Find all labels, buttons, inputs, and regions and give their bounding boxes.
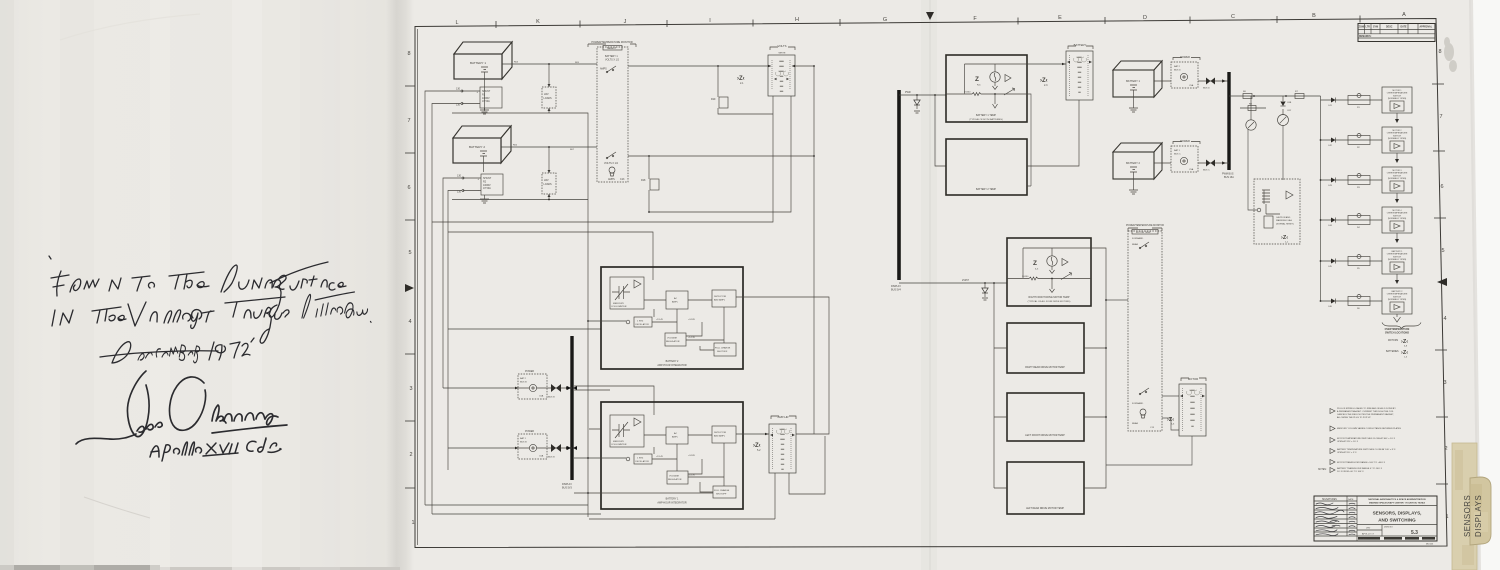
svg-text:SYM: SYM (1373, 27, 1378, 29)
svg-text:M67-006: M67-006 (1426, 544, 1433, 546)
right front drive motor temp block (1007, 238, 1091, 306)
svg-text:BATTERY 1: BATTERY 1 (666, 498, 679, 501)
svg-text:2: 2 (409, 452, 412, 458)
svg-text:SENSORS, DISPLAYS,: SENSORS, DISPLAYS, (1373, 511, 1422, 516)
signature line: Apollo XVII Cdr (150, 438, 281, 461)
svg-text:LOADS: LOADS (544, 183, 553, 186)
svg-text:OVERTEMPERATURE: OVERTEMPERATURE (1387, 92, 1408, 95)
svg-text:BUS B: BUS B (520, 382, 527, 384)
inscription line 3: DECEMBER 1972 (100, 338, 254, 363)
svg-text:5: 5 (408, 250, 411, 256)
wire battery B4 to CB (1154, 160, 1229, 172)
1 khz oscillator 1 (626, 457, 630, 461)
display bus 5V3 (562, 336, 573, 489)
battery B4 (3D box) (1113, 143, 1162, 179)
svg-text:REAR: REAR (1132, 243, 1138, 246)
wire shunt R2 to terminals (463, 178, 481, 191)
svg-text:L: L (455, 20, 458, 26)
svg-text:POWER/TEMPERATURE MONITOR: POWER/TEMPERATURE MONITOR (591, 41, 632, 44)
svg-text:(TYPICAL OF BOTH BATTERIES): (TYPICAL OF BOTH BATTERIES) (969, 118, 1003, 121)
svg-text:BATTERY 2: BATTERY 2 (1392, 290, 1404, 293)
impedance Z2-1 (737, 76, 745, 85)
svg-text:REMARKS:: REMARKS: (1359, 35, 1372, 38)
node 130 terminals B1 (456, 88, 463, 107)
svg-text:AMP-HOUR INTEGRATOR: AMP-HOUR INTEGRATOR (657, 364, 686, 367)
detector and ampl 2 (712, 290, 736, 307)
battery 1 overtemperature switch S5 (1320, 248, 1412, 284)
battery temp meter M3 (1066, 43, 1093, 100)
svg-text:MOTOR TEMP: MOTOR TEMP (1136, 232, 1151, 234)
svg-text:7: 7 (407, 118, 410, 124)
svg-text:C5A: C5A (1189, 168, 1194, 171)
overtemp distribution line (1320, 96, 1322, 301)
wire pwm bus to lamp branch (1229, 95, 1321, 97)
svg-text:+19.4V: +19.4V (656, 456, 664, 458)
svg-text:2: 2 (1444, 446, 1447, 452)
svg-text:BATTERY TEMPERATURE SWITCHES C: BATTERY TEMPERATURE SWITCHES CLOSE AT 14… (1337, 448, 1396, 451)
sheet border frame (415, 19, 1447, 548)
battery 2 amp-hour integrator U2 (601, 267, 743, 369)
battery 2 overtemperature switch S6 (1320, 288, 1412, 322)
power switch CB bat2 (511, 370, 572, 399)
display bus 5V4 (891, 90, 902, 291)
svg-text:VOLTAGE: VOLTAGE (667, 337, 678, 340)
note flag 2 (1330, 426, 1402, 431)
svg-text:COULOMETER: COULOMETER (611, 444, 627, 446)
power/temperature monitor 2 (dashed) (1126, 224, 1164, 431)
svg-text:›Z‹: ›Z‹ (1401, 350, 1408, 356)
svg-text:BATTERY 2: BATTERY 2 (1126, 161, 1140, 165)
svg-text:(NORMALLY OPEN): (NORMALLY OPEN) (1388, 258, 1407, 261)
wire power bat2 feed (443, 387, 511, 389)
svg-text:DESC: DESC (1386, 27, 1393, 29)
power/temperature monitor (dashed select box) (588, 41, 636, 182)
svg-text:FORWARD: FORWARD (1132, 402, 1144, 405)
note flag 1 (1330, 407, 1396, 419)
wire battery1 temp to meter (1027, 63, 1066, 65)
svg-text:D: D (1143, 15, 1147, 21)
svg-text:LRV: LRV (544, 179, 549, 182)
svg-text:BUS B: BUS B (520, 442, 527, 444)
wire osc1 tap from bus (574, 457, 626, 459)
left folded blank panel (0, 0, 392, 570)
svg-text:LOADS: LOADS (544, 97, 553, 100)
svg-text:130: 130 (457, 191, 462, 194)
mercury coulometer 1 (610, 415, 644, 447)
ground (battery B2) (483, 163, 485, 172)
fold crease band (385, 0, 414, 570)
svg-text:REGULATOR: REGULATOR (666, 340, 680, 343)
svg-text:MERCURY: MERCURY (613, 441, 625, 443)
svg-text:2V450: 2V450 (964, 92, 971, 94)
wire left riser D (448, 191, 462, 471)
shunt R2 (478, 174, 504, 195)
wire bus to battery1 temp (899, 91, 946, 96)
ac ampl 2 (666, 291, 688, 309)
svg-text:BATTERY 1: BATTERY 1 (1392, 250, 1404, 253)
svg-text:+24.8V: +24.8V (688, 455, 696, 457)
wire mercury 2 feed (574, 386, 654, 415)
resistor R18 (641, 179, 659, 190)
right row numbers (1432, 49, 1449, 520)
mercury coulometer 2 (610, 277, 644, 309)
wire U1 detector out to meter (736, 433, 769, 435)
svg-text:DETECTOR: DETECTOR (714, 432, 726, 434)
svg-text:OSCILLATOR: OSCILLATOR (635, 460, 649, 463)
svg-text:4: 4 (1443, 316, 1446, 322)
svg-text:DATE: DATE (1348, 498, 1354, 501)
svg-text:BATTERIES: BATTERIES (1386, 350, 1399, 353)
wire meter bottom loop (789, 436, 825, 494)
svg-text:MOTOR 4: MOTOR 4 (1392, 210, 1402, 212)
svg-text:MOTORS: MOTORS (1388, 340, 1399, 342)
svg-text:B: B (1312, 13, 1316, 19)
svg-text:AMPL: AMPL (672, 436, 679, 439)
impedance Z batt meter (1040, 78, 1048, 87)
wire under battery 1 (452, 113, 588, 517)
svg-text:AMPS: AMPS (600, 68, 607, 71)
svg-text:+19.4V: +19.4V (656, 319, 664, 321)
svg-text:BUS D: BUS D (1174, 70, 1181, 72)
schematic paper panel (414, 0, 1494, 570)
svg-text:BATTERY 1 TEMP: BATTERY 1 TEMP (976, 114, 996, 117)
svg-text:DETECTOR: DETECTOR (714, 296, 726, 298)
left rear drive motor temp block (1007, 462, 1084, 514)
wire R18 branch (648, 156, 650, 212)
svg-text:3: 3 (409, 386, 412, 392)
svg-text:SWITCH: SWITCH (1393, 135, 1401, 137)
svg-text:SWITCH: SWITCH (1393, 296, 1401, 298)
svg-text:5: 5 (1441, 248, 1444, 254)
svg-text:A: A (1402, 12, 1406, 18)
svg-text:6: 6 (1440, 184, 1443, 190)
svg-text:(TYPICAL OF ALL FOUR DRIVE MOT: (TYPICAL OF ALL FOUR DRIVE MOTORS) (1028, 300, 1071, 303)
svg-text:LEFT FRONT DRIVE MOTOR TEMP: LEFT FRONT DRIVE MOTOR TEMP (1025, 434, 1065, 437)
index tab tape strip (1452, 443, 1477, 570)
svg-text:MOTOR TEMPERATURE SWITCHES CLO: MOTOR TEMPERATURE SWITCHES CLOSE AT 360°… (1337, 437, 1396, 440)
signature: Gene Cernan (76, 371, 287, 444)
svg-text:LEFT REAR DRIVE MOTOR TEMP: LEFT REAR DRIVE MOTOR TEMP (1026, 507, 1064, 510)
impedance Z5-2 (753, 443, 761, 452)
svg-text:BATTERY 2 TEMP: BATTERY 2 TEMP (976, 188, 996, 191)
power switch CB bat1 display (1171, 139, 1200, 172)
svg-text:C6Y: C6Y (1287, 110, 1292, 112)
svg-text:BAT 2: BAT 2 (520, 377, 527, 380)
svg-text:SHUTOFF: SHUTOFF (716, 494, 727, 496)
wire osc2 tap (587, 320, 626, 322)
svg-text:(NORMAL RESET): (NORMAL RESET) (1276, 222, 1294, 225)
svg-text:7: 7 (1439, 114, 1442, 120)
svg-text:BUS 5V3: BUS 5V3 (562, 486, 573, 489)
svg-text:AC: AC (674, 432, 677, 435)
wire R19 branch (718, 66, 773, 114)
svg-text:VOLTS X 1/2: VOLTS X 1/2 (604, 162, 619, 165)
power switch CB bat2 display (1171, 55, 1200, 88)
lamp DS2 (1278, 96, 1292, 126)
wire battery2 temp to meter (1027, 100, 1079, 166)
battery 1 temp sensor block (946, 55, 1027, 122)
wire bottom run B (432, 513, 601, 515)
svg-text:RIGHT REAR DRIVE MOTOR TEMP: RIGHT REAR DRIVE MOTOR TEMP (1025, 366, 1065, 369)
svg-text:AT 50A: AT 50A (483, 187, 491, 190)
diode CR bus1 (914, 95, 920, 113)
svg-text:Z: Z (1033, 260, 1037, 267)
svg-text:BUS C: BUS C (1174, 154, 1181, 156)
full charge shutoff 1 (713, 486, 736, 498)
svg-text:BATTERY 1: BATTERY 1 (1126, 79, 1140, 83)
svg-text:RIGHT FRONT DRIVE MOTOR TEMP: RIGHT FRONT DRIVE MOTOR TEMP (1029, 296, 1070, 299)
svg-text:MOTOR: MOTOR (1188, 377, 1198, 381)
svg-text:C13: C13 (620, 178, 625, 181)
svg-text:FULL CHARGE: FULL CHARGE (715, 347, 731, 350)
svg-text:›Z‹: ›Z‹ (1401, 339, 1408, 345)
wire mid riser (813, 155, 815, 434)
motor temp meter M4 (1179, 377, 1206, 436)
power switch CB bat1 (511, 430, 572, 459)
wire bottom run C (589, 473, 775, 519)
bottom edge shadow (0, 565, 160, 570)
svg-text:OPEN AT 370° ± 10° F: OPEN AT 370° ± 10° F (1337, 440, 1359, 443)
right paper edge to white (1471, 0, 1500, 570)
inscription line 1: FLOWN TO THE LUNAR SURFACE (49, 256, 346, 317)
left fold arrow (405, 284, 414, 292)
svg-text:SELECT: SELECT (607, 47, 617, 50)
wire temp blocks to display (1027, 94, 1031, 186)
resistor R7 (1295, 91, 1304, 99)
paper streaks (decorative) (0, 0, 340, 570)
svg-text:POWER: POWER (1180, 55, 1190, 59)
1 khz oscillator 2 (626, 320, 630, 324)
wire under battery 2 (452, 199, 588, 201)
svg-text:C: C (1231, 14, 1235, 20)
motor 2 overtemperature switch S2 (1320, 127, 1412, 163)
svg-text:1: 1 (1445, 514, 1448, 520)
svg-text:(NORMALLY OPEN): (NORMALLY OPEN) (1388, 97, 1407, 100)
wire motor temp left riser (993, 282, 1007, 488)
battery 2 temp sensor block (946, 139, 1027, 195)
wire battery B3 to CB (1154, 78, 1229, 90)
svg-text:POWER: POWER (525, 370, 534, 373)
svg-text:PLUG IS SPRING LOADED TO RISE: PLUG IS SPRING LOADED TO RISE AND IS HEL… (1337, 407, 1396, 410)
wire bus to battery2 temp (934, 94, 946, 166)
svg-text:+14.3V: +14.3V (688, 475, 696, 477)
ground (battery B4) (1129, 172, 1138, 194)
detector and ampl 1 (712, 426, 736, 443)
svg-text:CANCELS THE FIELD NOTES THE PE: CANCELS THE FIELD NOTES THE PERMANENT MA… (1337, 413, 1394, 416)
svg-text:1 KHZ: 1 KHZ (637, 458, 644, 460)
faint centre fold of schematic (921, 0, 937, 570)
svg-text:WHITE: WHITE (778, 53, 786, 55)
svg-text:J: J (624, 19, 627, 25)
motor 3 overtemperature switch S3 (1320, 167, 1412, 203)
svg-text:(NORMALLY OPEN): (NORMALLY OPEN) (1388, 217, 1407, 220)
wire lamps to flag box (1248, 126, 1283, 211)
svg-text:BUS D: BUS D (1203, 88, 1210, 90)
ground (battery B1) (480, 79, 489, 114)
svg-text:SHUTOFF: SHUTOFF (717, 351, 728, 353)
left front drive motor temp block (1007, 393, 1084, 441)
svg-text:AMP-HOUR INTEGRATOR: AMP-HOUR INTEGRATOR (657, 501, 686, 504)
svg-text:PWR: PWR (905, 91, 911, 94)
ground (shunt R2) (480, 195, 489, 203)
svg-text:LRV: LRV (1366, 528, 1371, 530)
battery B2 (3D box) (453, 126, 511, 163)
svg-text:G: G (883, 17, 887, 23)
ground (battery B3) (1129, 90, 1138, 112)
svg-text:APOLLO 17: APOLLO 17 (1362, 533, 1375, 536)
svg-text:LRV: LRV (544, 93, 549, 96)
motor 1 overtemperature switch S1 (1321, 87, 1413, 123)
top centre fold arrow (926, 12, 934, 20)
voltage regulator 1 (667, 471, 688, 484)
svg-text:MANNED SPACECRAFT CENTER · H: MANNED SPACECRAFT CENTER · HOUSTON, TEXA… (1369, 502, 1425, 505)
wire motor blocks to monitor2 (1105, 299, 1128, 301)
svg-text:BUS 16A: BUS 16A (1224, 176, 1234, 179)
svg-text:SENSORS: SENSORS (1463, 495, 1472, 537)
node 130 terminals B2 (457, 175, 464, 194)
svg-text:SIGNATURES: SIGNATURES (1322, 498, 1337, 501)
right fold arrow (1437, 278, 1447, 286)
svg-text:ALLOWING THE PLUG TO POP UP: ALLOWING THE PLUG TO POP UP (1337, 416, 1371, 419)
svg-text:BAT 2: BAT 2 (1174, 65, 1181, 68)
svg-text:C6B: C6B (1287, 102, 1292, 104)
svg-text:BATTERY 2: BATTERY 2 (666, 360, 679, 363)
wire motor temp right riser (1084, 248, 1107, 488)
svg-text:C5A: C5A (1189, 84, 1194, 87)
wire shunt R1 to terminals (462, 91, 480, 104)
svg-text:OPEN AT 119° ± 5° F: OPEN AT 119° ± 5° F (1337, 451, 1357, 454)
svg-text:REAR: REAR (1132, 422, 1138, 425)
svg-text:+24.8V: +24.8V (688, 319, 696, 321)
svg-text:SWITCH: SWITCH (1393, 256, 1401, 258)
svg-text:8: 8 (1438, 49, 1441, 55)
svg-text:MERCURY COLUMN VARIES CONDUCTA: MERCURY COLUMN VARIES CONDUCTANCE BETWEE… (1337, 427, 1402, 430)
svg-text:130: 130 (457, 175, 462, 178)
svg-text:MOTOR 2: MOTOR 2 (1392, 130, 1402, 132)
svg-text:APPROVAL: APPROVAL (1420, 26, 1433, 29)
svg-text:NOTES:: NOTES: (1318, 469, 1327, 471)
note flag 5 (1330, 460, 1386, 465)
svg-text:OSCILLATOR: OSCILLATOR (635, 323, 649, 326)
svg-text:AND AMPL: AND AMPL (714, 299, 726, 302)
battery B1 (3D box) (454, 42, 512, 79)
note flag 3 (1330, 437, 1396, 443)
svg-text:5.3: 5.3 (1411, 530, 1418, 536)
svg-text:AND AMPL: AND AMPL (714, 435, 726, 438)
svg-text:OVERTEMPERATURE: OVERTEMPERATURE (1387, 132, 1408, 135)
svg-text:WARNING FLAG: WARNING FLAG (1276, 219, 1292, 222)
svg-text:K: K (536, 19, 540, 25)
svg-text:OVERTEMPERATURE: OVERTEMPERATURE (1387, 293, 1408, 296)
svg-text:+14.3V: +14.3V (688, 337, 696, 339)
diode CR motor feed (982, 283, 988, 300)
svg-text:AND SWITCHING: AND SWITCHING (1378, 518, 1416, 523)
wires inside U1 (644, 435, 712, 471)
svg-text:MOTOR TRANSDUCER RANGE +100° T: MOTOR TRANSDUCER RANGE +100° TO +600° F (1337, 461, 1386, 464)
svg-text:MOTOR 3: MOTOR 3 (1392, 170, 1402, 172)
revision table (1358, 24, 1435, 42)
svg-text:SHEET 1: SHEET 1 (1424, 539, 1433, 541)
voltage regulator 2 (665, 333, 686, 346)
svg-text:OVERTEMPERATURE: OVERTEMPERATURE (1387, 172, 1408, 175)
svg-text:A PERMANENT MAGNET. CURRENT TH: A PERMANENT MAGNET. CURRENT THROUGH THE … (1337, 410, 1394, 413)
svg-text:1: 1 (411, 520, 414, 526)
note flag 4 (1330, 448, 1396, 454)
svg-text:LTR: LTR (1366, 27, 1371, 29)
svg-text:DATE: DATE (1401, 26, 1408, 29)
svg-text:SWITCH: SWITCH (1393, 175, 1401, 177)
svg-text:(NORMALLY OPEN): (NORMALLY OPEN) (1388, 137, 1407, 140)
svg-text:R19: R19 (711, 98, 716, 101)
wire meter return (1106, 436, 1192, 465)
lamp DS1 (1246, 96, 1256, 130)
title block (1314, 496, 1437, 546)
full charge shutoff 2 (714, 343, 736, 356)
svg-text:SWITCH: SWITCH (1393, 95, 1401, 97)
bus 5V3 tap arrows (567, 386, 577, 450)
svg-text:BUS 5V4: BUS 5V4 (891, 288, 902, 291)
svg-text:BUS B: BUS B (548, 397, 555, 399)
svg-text:FORWARD: FORWARD (1132, 237, 1144, 240)
svg-text:POWER: POWER (525, 430, 534, 433)
svg-text:2V450: 2V450 (1022, 276, 1029, 278)
svg-text:NATIONAL AERONAUTICS & SPACE A: NATIONAL AERONAUTICS & SPACE ADMINISTRAT… (1368, 498, 1426, 501)
svg-text:ZONE: ZONE (1359, 27, 1366, 29)
svg-text:REGULATOR: REGULATOR (668, 478, 682, 481)
svg-text:AT 50A: AT 50A (482, 100, 490, 103)
ground (shunt R1) (484, 108, 486, 111)
svg-text:POWER/TEMPERATURE MONITOR: POWER/TEMPERATURE MONITOR (1126, 224, 1164, 227)
LRV loads 1 (dashed) (542, 64, 556, 113)
resistor R19 (711, 97, 728, 108)
volts meter M1 (768, 44, 795, 96)
wire U2 detector out (736, 297, 829, 434)
svg-text:AMPS: AMPS (608, 178, 615, 181)
motor 4 overtemperature switch S4 (1320, 207, 1412, 243)
wire bottom run A (425, 504, 588, 506)
pwm bus (1222, 72, 1234, 179)
shunt R1 (477, 87, 503, 108)
svg-text:SCALE: SCALE (1360, 538, 1367, 541)
svg-text:OVERTEMPERATURE: OVERTEMPERATURE (1387, 253, 1408, 256)
svg-text:CAUTION AND: CAUTION AND (1276, 216, 1291, 219)
svg-text:BUS B: BUS B (548, 457, 555, 459)
svg-text:›Z‹: ›Z‹ (1281, 235, 1288, 241)
wire left riser C (443, 178, 462, 388)
svg-text:E: E (1058, 15, 1062, 21)
svg-text:POWER: POWER (1180, 139, 1190, 143)
wires inside U2 (644, 300, 712, 333)
svg-text:3: 3 (1443, 380, 1446, 386)
wire left riser B (432, 104, 461, 515)
svg-text:BUS C: BUS C (1203, 170, 1210, 172)
wire left riser A (425, 91, 461, 505)
svg-text:C5A: C5A (539, 455, 544, 458)
svg-text:130: 130 (456, 88, 461, 91)
svg-text:DISPLAYS: DISPLAYS (1474, 495, 1483, 537)
battery B3 (3D box) (1113, 61, 1162, 97)
svg-text:2V457: 2V457 (962, 279, 970, 282)
caution and warning flag box (dashed) (1254, 179, 1300, 244)
svg-text:BATTERY 1: BATTERY 1 (470, 61, 486, 65)
wire battery B1 to monitor (502, 62, 597, 65)
svg-text:R18: R18 (641, 179, 646, 182)
LRV loads 2 (dashed) (542, 147, 556, 200)
svg-text:AMPL: AMPL (672, 301, 679, 304)
pencil smudges (decorative) (1444, 37, 1457, 72)
wire monitor lower to node (628, 65, 815, 157)
svg-text:VOLTAGE: VOLTAGE (669, 475, 680, 478)
